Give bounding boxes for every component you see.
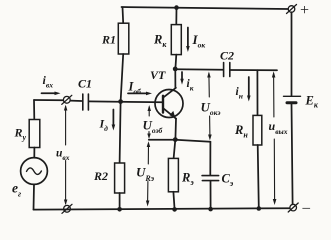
measure u_vyx lower with down arrow [273,139,275,200]
wire Rk branch top [175,8,177,25]
wire collector node to C2 [175,68,223,71]
svg-text:uвых: uвых [269,119,288,136]
terminal - (bottom right) [288,203,298,212]
wire C1 to base [89,100,163,103]
junction emitter node [173,137,178,142]
wire R1 branch top [122,7,125,23]
arrow i_vx [42,92,57,94]
junction Ce bottom [208,207,213,212]
junction collector node [173,67,178,72]
wire Ce bottom [210,181,212,209]
svg-text:VT: VT [150,68,166,82]
wire bottom ground rail [34,208,290,209]
svg-text:Rн: Rн [234,123,248,140]
source eg circle [21,158,48,185]
junction R2 bottom [117,207,122,212]
wire collector vertical [174,69,176,88]
arrow i_n [248,77,250,97]
svg-text:R2: R2 [93,169,108,183]
svg-text:Iд: Iд [99,117,109,134]
wire input top from source branch to input terminal [34,99,63,101]
wire R1 bottom to node [121,54,124,102]
junction Rn bottom [257,206,262,211]
terminal + (top right) [287,5,297,14]
measure U_oeb with up arrow [148,107,150,116]
measure U_oke upper with up arrow [208,74,210,98]
arrow I_ob [128,92,147,94]
wire Rn branch top [256,70,258,115]
resistor R2 [115,163,125,193]
measure u_vx line upper with up arrow [65,107,67,146]
svg-text:Rу: Rу [14,126,27,143]
svg-text:Eк: Eк [305,94,319,110]
svg-text:iвх: iвх [43,73,54,90]
svg-text:C2: C2 [220,49,234,63]
arrow i_k [181,72,183,80]
measure u_vx line lower with down arrow [65,161,67,204]
svg-text:iк: iк [187,78,194,93]
wire terminal to C1 [70,100,81,102]
junction top of Rk branch [174,5,179,10]
svg-text:iн: iн [236,86,243,101]
svg-text:C1: C1 [78,77,92,91]
arrow I_d [112,110,114,126]
resistor Re [168,158,178,191]
wire R2 bottom [119,193,121,209]
resistor R1 [118,23,129,54]
battery Ek [284,96,301,103]
wire source bottom [33,184,36,209]
svg-text:Iок: Iок [192,32,206,50]
resistor Ry [29,120,40,148]
wire Ce branch top [209,142,211,175]
svg-text:R1: R1 [101,33,116,47]
arrow I_ok [187,28,189,48]
measure u_vyx upper with up arrow [273,74,275,118]
measure U_Re upper with up arrow [147,144,149,165]
svg-text:Rэ: Rэ [181,171,194,188]
wire emitter node to Re [174,140,176,159]
resistor Rn [253,115,262,145]
wire right rail lower [292,104,293,204]
wire right rail upper [291,12,293,95]
node base/divider junction [118,99,123,104]
wire left source branch upper [33,100,35,120]
svg-text:+: + [300,2,309,19]
wire node to R2 [120,102,121,163]
svg-text:Uоэб: Uоэб [143,118,163,136]
terminal bottom left [62,204,72,213]
capacitor C1 [83,94,89,110]
transistor VT [155,88,183,119]
resistor Rk [171,25,181,55]
svg-text:Uокэ: Uокэ [201,100,221,118]
measure U_oke lower with down arrow [209,116,211,135]
svg-text:URэ: URэ [136,165,155,184]
svg-text:Cэ: Cэ [222,172,234,189]
wire Re bottom [173,192,174,210]
svg-text:–: – [302,200,311,216]
wire Rk bottom to collector node [174,55,177,69]
terminal input (top left) [62,95,72,104]
junction Re bottom [172,207,177,212]
wire top supply rail [122,7,289,9]
wire emitter vertical [174,119,177,140]
svg-text:Rк: Rк [153,33,167,50]
capacitor Ce [202,176,219,181]
wire Rn bottom [258,145,259,208]
wire C2 to right [230,69,277,71]
measure U_Re lower with down arrow [147,182,149,202]
svg-text:eг: eг [12,181,21,199]
wire emitter node horizontal [149,140,211,142]
svg-text:uвх: uвх [56,148,70,163]
wire Ry to source [33,148,35,158]
sine wave inside source [27,168,42,175]
capacitor C2 [224,63,230,77]
